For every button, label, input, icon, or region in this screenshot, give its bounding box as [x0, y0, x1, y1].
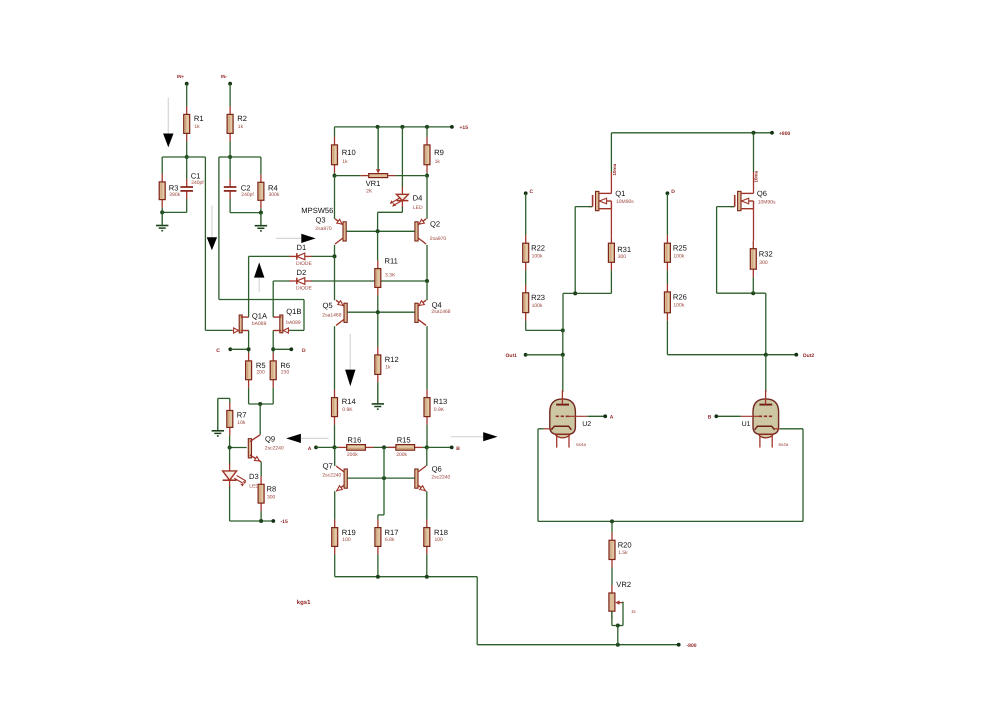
- svg-text:A: A: [610, 415, 614, 421]
- annotation down arrow 2: [207, 205, 217, 250]
- wire R26 bottom down: [666, 321, 668, 355]
- svg-text:R2: R2: [237, 114, 247, 123]
- wire rail down to Q1 drain: [610, 133, 612, 172]
- wire Out1 rail: [526, 354, 563, 356]
- wire Q6 gate left: [717, 206, 735, 208]
- wire Q3 collector down: [334, 245, 336, 257]
- svg-text:bA089: bA089: [252, 321, 267, 327]
- wire Q9 base: [230, 447, 247, 449]
- wire R3 top: [161, 157, 163, 174]
- wire R15 to R13: [423, 446, 427, 448]
- svg-text:2K: 2K: [366, 189, 373, 195]
- potentiometer VR2: [609, 580, 631, 619]
- capacitor C2: [224, 179, 255, 199]
- svg-text:2sa1468: 2sa1468: [322, 313, 341, 319]
- wire Q6 gate down: [716, 207, 718, 294]
- resistor R23: [523, 285, 545, 321]
- wire Q4 collector down: [426, 326, 428, 389]
- terminal B: [450, 446, 454, 450]
- svg-text:Q3: Q3: [316, 216, 326, 225]
- svg-text:10ma: 10ma: [754, 170, 759, 182]
- svg-text:kgs1: kgs1: [297, 599, 311, 606]
- svg-text:0.9K: 0.9K: [434, 407, 445, 413]
- terminal IN+: [185, 82, 189, 86]
- svg-text:Q9: Q9: [265, 435, 275, 444]
- terminal +15: [450, 125, 454, 129]
- wire IN- to R2: [229, 84, 231, 107]
- wire IN+ to R1: [186, 84, 188, 107]
- net label C: [216, 348, 220, 354]
- svg-text:D: D: [671, 189, 675, 195]
- svg-text:U2: U2: [582, 421, 591, 428]
- wire R9 top: [426, 127, 428, 137]
- wire node to C2: [229, 157, 231, 179]
- wire R19 bottom: [334, 554, 336, 576]
- svg-text:IN-: IN-: [221, 74, 228, 79]
- MOSFET Q6: [730, 189, 776, 211]
- wire R14 to R16: [335, 446, 339, 448]
- resistor R10: [332, 137, 356, 173]
- wire R7 top up: [229, 398, 231, 402]
- junction R14 bottom: [333, 445, 337, 449]
- svg-text:+800: +800: [779, 131, 790, 137]
- resistor R32: [750, 241, 772, 278]
- svg-text:Out2: Out2: [803, 353, 815, 359]
- svg-text:R15: R15: [397, 436, 411, 445]
- wire R18 bottom: [426, 554, 428, 576]
- terminal Out1: [524, 353, 528, 357]
- svg-text:D1: D1: [297, 243, 307, 252]
- transistor Q5: [322, 300, 347, 325]
- net label C right: [530, 189, 534, 195]
- svg-text:100: 100: [342, 537, 351, 543]
- wire +800 rail: [611, 132, 772, 134]
- wire gate node2 to corner: [717, 292, 766, 294]
- junction mid rail: [382, 445, 386, 449]
- wire VR2 to -800 rail: [617, 626, 619, 645]
- wire Q1B source to D: [273, 348, 291, 350]
- junction rail D4: [400, 125, 404, 129]
- svg-text:100k: 100k: [673, 254, 684, 260]
- junction base rail2: [376, 310, 380, 314]
- wire node to C1: [186, 157, 188, 179]
- svg-text:B: B: [456, 446, 460, 452]
- svg-text:1k: 1k: [194, 124, 200, 130]
- wire Out2 rail: [667, 354, 796, 356]
- wire VR1 right: [396, 175, 427, 177]
- wire D1 left: [249, 255, 290, 257]
- wire box2 top: [219, 156, 261, 158]
- resistor R1: [184, 106, 204, 141]
- resistor R11: [375, 256, 398, 295]
- potentiometer VR1: [361, 127, 396, 195]
- LED D4: [390, 187, 423, 211]
- wire R6 bottom: [272, 388, 274, 404]
- wire Q3 emitter up: [334, 176, 336, 219]
- wire Q4 emitter up: [426, 281, 428, 300]
- svg-text:R16: R16: [347, 436, 361, 445]
- svg-text:D4: D4: [413, 194, 423, 203]
- wire D4 jog left: [378, 211, 403, 213]
- svg-text:300k: 300k: [269, 192, 280, 198]
- junction D2-Q2 collector: [425, 279, 429, 283]
- svg-text:200k: 200k: [396, 452, 407, 458]
- net label -800: [687, 643, 697, 649]
- svg-text:R32: R32: [759, 249, 773, 258]
- terminal -15: [271, 519, 275, 523]
- terminal B right: [714, 414, 718, 418]
- svg-text:10M90s: 10M90s: [616, 199, 634, 205]
- svg-text:R8: R8: [267, 485, 277, 494]
- svg-text:6.8k: 6.8k: [385, 537, 395, 543]
- wire bottom box1: [162, 211, 187, 213]
- transistor Q4: [415, 300, 451, 325]
- svg-text:R14: R14: [342, 397, 356, 406]
- transistor Q7: [322, 462, 347, 492]
- svg-text:Q1B: Q1B: [286, 307, 301, 316]
- wire Q1 gate down: [574, 207, 576, 294]
- wire gate node to R31: [563, 292, 611, 294]
- junction Q6 drain: [752, 131, 756, 135]
- svg-text:1k: 1k: [342, 159, 348, 165]
- terminal D: [289, 347, 293, 351]
- transistor Q9: [248, 435, 284, 462]
- svg-text:R11: R11: [385, 256, 398, 265]
- resistor R16: [339, 436, 374, 458]
- wire R7 bottom to base node: [229, 435, 231, 447]
- junction C2-R4: [259, 211, 263, 215]
- wire cathode loop bottom: [538, 520, 803, 522]
- svg-text:R31: R31: [617, 245, 631, 254]
- svg-text:C: C: [530, 189, 534, 195]
- svg-text:+15: +15: [460, 125, 469, 131]
- wire Q7 emitter down: [334, 491, 336, 519]
- svg-text:R1: R1: [194, 114, 204, 123]
- diode D2: [289, 268, 312, 291]
- svg-text:R26: R26: [673, 293, 687, 302]
- wire D1 right: [312, 255, 335, 257]
- wire R7 top left: [218, 397, 230, 399]
- terminal -800: [677, 643, 681, 647]
- wire mid down to base rail3: [383, 447, 385, 478]
- wire R32 bottom: [752, 277, 754, 293]
- net label A: [308, 446, 312, 452]
- junction Q1B source: [271, 347, 275, 351]
- ground R12: [372, 382, 384, 409]
- net label +15: [460, 125, 469, 131]
- wire base rail down to R11: [377, 231, 379, 260]
- svg-text:LED: LED: [413, 205, 423, 211]
- node IN+ junction: [185, 155, 189, 159]
- svg-text:R19: R19: [342, 528, 356, 537]
- wire Q1B source down: [272, 331, 274, 353]
- svg-text:2sc2240: 2sc2240: [322, 473, 341, 479]
- annotation down arrow 1: [163, 98, 173, 148]
- ground R3: [156, 212, 168, 230]
- label MPSW56: [301, 206, 333, 215]
- svg-text:100k: 100k: [532, 303, 543, 309]
- resistor R15: [388, 436, 423, 458]
- svg-text:-800: -800: [687, 643, 697, 649]
- svg-text:Out1: Out1: [506, 353, 518, 359]
- net label -15: [281, 519, 288, 525]
- wire D1 corner down to Q1A drain: [248, 256, 250, 317]
- wire D3 bottom: [229, 487, 231, 522]
- svg-text:10ma: 10ma: [612, 163, 617, 175]
- svg-text:R4: R4: [268, 183, 278, 192]
- svg-text:R9: R9: [434, 148, 444, 157]
- wire Out1 down to U2 plate: [562, 355, 564, 392]
- svg-text:D: D: [302, 348, 306, 354]
- svg-text:Q6: Q6: [432, 465, 442, 474]
- junction R13 bottom: [425, 445, 429, 449]
- wire R22-R23: [525, 270, 527, 285]
- svg-text:Q7: Q7: [323, 462, 333, 471]
- annotation up arrow: [254, 262, 264, 291]
- svg-text:DIODE: DIODE: [296, 286, 313, 292]
- tube U2: [544, 390, 592, 448]
- svg-text:1k: 1k: [631, 609, 637, 614]
- svg-text:200k: 200k: [347, 452, 358, 458]
- wire down to Q1B gate row: [303, 300, 305, 331]
- resistor R18: [424, 520, 448, 555]
- wire Q5 collector down: [334, 326, 336, 389]
- svg-text:D2: D2: [297, 268, 307, 277]
- junction Out1: [561, 353, 565, 357]
- wire box1 right down: [204, 157, 206, 330]
- svg-text:Q5: Q5: [323, 301, 333, 310]
- terminal A: [314, 446, 318, 450]
- wire rail down to D4: [401, 127, 403, 188]
- JFET Q1A: [232, 312, 268, 334]
- wire jog down to base rail: [377, 212, 379, 231]
- wire R31 bottom: [610, 270, 612, 293]
- wire VR1 left: [335, 175, 361, 177]
- wire U2 cathode down: [537, 429, 539, 522]
- terminal IN-: [228, 82, 232, 86]
- resistor R2: [227, 106, 247, 141]
- junction tail: [258, 402, 262, 406]
- wire R14 bottom: [334, 425, 336, 448]
- svg-text:300: 300: [618, 254, 627, 260]
- wire R9 to VR1 node: [426, 173, 428, 176]
- diode D1: [289, 243, 312, 267]
- junction VR2 bottom: [616, 624, 620, 628]
- wire Q9 emitter down: [260, 462, 262, 476]
- junction R20 tap: [610, 519, 614, 523]
- svg-text:B: B: [708, 415, 712, 421]
- junction base rail3: [382, 476, 386, 480]
- wire R17 bottom: [377, 554, 379, 576]
- svg-text:Q6: Q6: [757, 189, 767, 198]
- wire C2 bottom: [229, 199, 231, 213]
- net label kgs1: [297, 599, 311, 606]
- wire VR2 bottom: [611, 611, 613, 625]
- wire R25-R26: [666, 270, 668, 284]
- wire R20 top: [611, 521, 613, 532]
- wire down to Out1: [562, 330, 564, 354]
- wire R13 bottom: [426, 425, 428, 448]
- wire Q2 collector down: [426, 245, 428, 281]
- current label 10ma Q6: [754, 170, 759, 182]
- wire R10 to VR1 node: [334, 173, 336, 176]
- resistor R12: [375, 347, 399, 383]
- svg-text:D3: D3: [249, 472, 259, 481]
- resistor R3: [159, 174, 180, 208]
- wire +15 rail: [335, 126, 452, 128]
- wire R2 to node: [229, 141, 231, 157]
- wire base rail2 to R12: [377, 312, 379, 347]
- JFET Q1B: [273, 307, 301, 333]
- svg-text:3.3K: 3.3K: [385, 273, 396, 279]
- svg-text:10M90s: 10M90s: [758, 200, 776, 206]
- svg-text:R7: R7: [237, 411, 247, 420]
- svg-text:2sc2240: 2sc2240: [265, 445, 284, 451]
- junction R23-gate leg: [561, 328, 565, 332]
- wire U1 grid to B: [718, 415, 741, 417]
- svg-text:R3: R3: [169, 183, 179, 192]
- wire Q1 source down: [610, 209, 612, 236]
- terminal A right: [603, 414, 607, 418]
- wire D4 bottom: [401, 207, 403, 212]
- net label D right: [671, 189, 675, 195]
- svg-text:VR1: VR1: [366, 179, 381, 188]
- annotation right arrow node B: [451, 432, 498, 441]
- svg-text:1.5k: 1.5k: [618, 550, 628, 556]
- junction R8 bottom: [259, 519, 263, 523]
- svg-text:6s4a: 6s4a: [779, 442, 789, 447]
- wire tail down to Q9: [259, 404, 261, 435]
- wire gate bias horizontal: [219, 299, 304, 301]
- wire Q1 gate left: [575, 206, 592, 208]
- junction VR2 tap: [616, 643, 620, 647]
- svg-text:100k: 100k: [673, 302, 684, 308]
- resistor R4: [258, 174, 280, 208]
- svg-text:R5: R5: [256, 361, 266, 370]
- svg-text:IN+: IN+: [177, 74, 185, 79]
- current label 10ma Q1: [612, 163, 617, 175]
- svg-text:R17: R17: [385, 528, 399, 537]
- junction base rail: [376, 229, 380, 233]
- wire Q1 drain red: [610, 172, 612, 193]
- terminal C right: [524, 191, 528, 195]
- ground R4: [255, 213, 267, 231]
- resistor R26: [664, 284, 686, 321]
- svg-text:R23: R23: [531, 293, 545, 302]
- junction Out2: [764, 353, 768, 357]
- wire D2 right: [312, 280, 428, 282]
- wire C down to R22: [525, 193, 527, 235]
- wire jog to R17: [378, 514, 384, 516]
- junction R32 bottom: [751, 291, 755, 295]
- svg-text:6s4a: 6s4a: [576, 442, 586, 447]
- wire rail to R10: [334, 127, 336, 137]
- wire R4 to junction: [260, 208, 262, 212]
- annotation down arrow mid: [345, 334, 355, 386]
- svg-text:R6: R6: [280, 361, 290, 370]
- terminal C: [228, 347, 232, 351]
- resistor R25: [664, 235, 686, 270]
- junction Q1A source: [247, 347, 251, 351]
- svg-text:-15: -15: [281, 519, 288, 525]
- wire D2 corner down to Q1B drain: [272, 281, 274, 317]
- svg-text:R10: R10: [342, 148, 356, 157]
- wire -15 rail: [230, 520, 274, 522]
- wire D down to R25: [666, 193, 668, 235]
- resistor R5: [246, 353, 266, 388]
- wire bottom rail corner down: [476, 577, 478, 645]
- svg-text:R20: R20: [618, 541, 632, 550]
- wire R3 to junction: [161, 208, 163, 213]
- wire base rail Q3-Q2: [346, 230, 415, 232]
- transistor Q3: [315, 216, 346, 244]
- wire R23 bottom down: [525, 321, 527, 331]
- resistor R20: [609, 532, 632, 567]
- junction rail VR1 wiper: [376, 125, 380, 129]
- wire R8 bottom: [260, 511, 262, 521]
- resistor R31: [608, 235, 631, 270]
- wire D2 left: [273, 280, 290, 282]
- svg-text:A: A: [308, 446, 312, 452]
- svg-text:C2: C2: [241, 183, 251, 192]
- wire Q6 collector: [426, 447, 428, 466]
- wire A to R14: [316, 446, 335, 448]
- wire R20 to VR2: [611, 568, 613, 586]
- svg-text:VR2: VR2: [616, 580, 631, 589]
- svg-text:R22: R22: [531, 244, 545, 253]
- junction Q1 gate node: [573, 291, 577, 295]
- resistor R7: [227, 403, 247, 436]
- net label IN-: [221, 74, 228, 79]
- terminal Out2: [794, 353, 798, 357]
- resistor R13: [424, 390, 447, 425]
- junction R9-VR1: [425, 174, 429, 178]
- svg-text:C: C: [216, 348, 220, 354]
- wire to Q1A gate: [205, 329, 232, 331]
- junction R17 bottom rail: [376, 575, 380, 579]
- svg-text:U1: U1: [742, 421, 751, 428]
- wire Q6 emitter down: [426, 491, 428, 519]
- wire VR2 wiper down: [622, 602, 624, 626]
- junction Q9 base: [228, 446, 232, 450]
- svg-text:0.9K: 0.9K: [342, 407, 353, 413]
- wire box1 top: [162, 156, 205, 158]
- resistor R6: [270, 353, 290, 388]
- wire Q2 emitter up: [426, 176, 428, 219]
- tube U1: [741, 390, 789, 448]
- svg-text:100: 100: [435, 537, 444, 543]
- capacitor C1: [180, 172, 204, 199]
- wire C to Q1A source: [230, 348, 248, 350]
- LED D3: [223, 463, 260, 489]
- wire C1 bottom: [186, 199, 188, 213]
- svg-text:2sa1468: 2sa1468: [431, 309, 450, 315]
- net label +800: [779, 131, 790, 137]
- wire jog down R17: [377, 515, 379, 520]
- svg-text:Q2: Q2: [430, 219, 440, 228]
- junction R3-C1: [160, 210, 164, 214]
- svg-text:230: 230: [281, 370, 290, 376]
- wire base rail Q7-Q6: [347, 477, 415, 479]
- wire R16 to mid: [373, 446, 396, 448]
- junction rail R9: [425, 125, 429, 129]
- svg-text:R18: R18: [434, 528, 448, 537]
- svg-text:R13: R13: [433, 397, 447, 406]
- resistor R22: [523, 235, 545, 270]
- wire Out2 down to U1 plate: [765, 355, 767, 392]
- wire corner down to Out2: [765, 293, 767, 355]
- wire R13 to B: [427, 446, 452, 448]
